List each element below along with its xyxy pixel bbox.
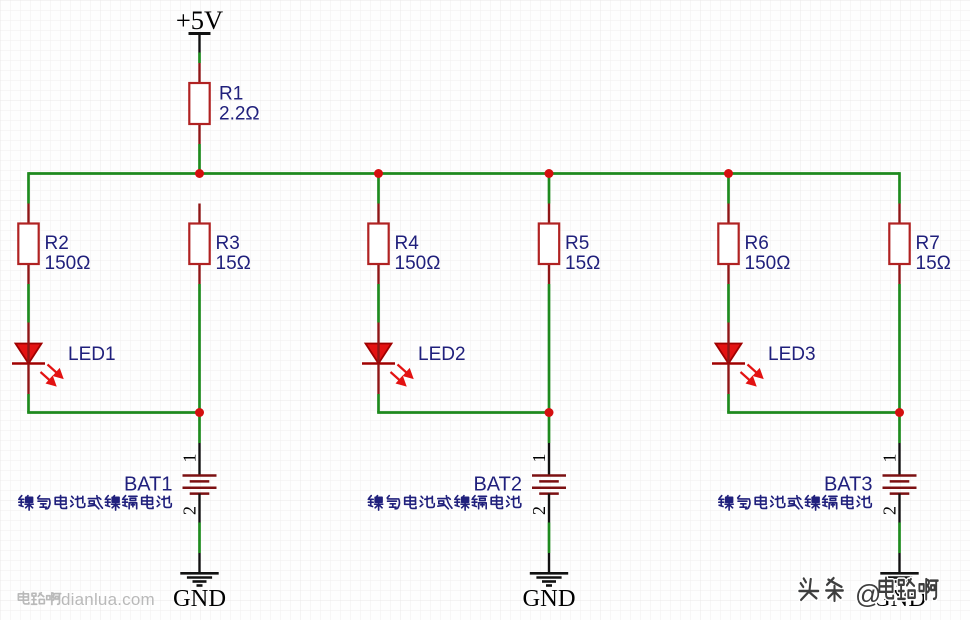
- svg-text:LED2: LED2: [418, 344, 466, 365]
- wire: bus down to resistor at x=728.5: [727, 174, 730, 204]
- battery BAT3: [719, 443, 917, 523]
- wire: bottom bus segment branch 2: [377, 411, 549, 414]
- resistor R5 15Ω: [539, 204, 601, 285]
- wire: BAT2 pin 2 to GND: [548, 523, 551, 554]
- svg-text:GND: GND: [173, 585, 226, 612]
- ground GND2: [522, 553, 575, 612]
- wire: LED3 to bottom bus: [727, 394, 730, 413]
- wire: R7 down to bottom bus: [898, 284, 901, 413]
- wire: BAT3 pin 2 to GND: [898, 523, 901, 554]
- svg-text:BAT2: BAT2: [473, 474, 522, 496]
- resistor R4 150Ω: [368, 204, 440, 285]
- svg-text:R4: R4: [395, 233, 420, 254]
- ground GND3: [873, 553, 926, 612]
- svg-text:BAT3: BAT3: [824, 474, 873, 496]
- junction on top bus at x=549.0: [545, 169, 554, 178]
- svg-text:1: 1: [880, 454, 900, 463]
- wire: R6 to LED3: [727, 284, 730, 323]
- wire: R4 to LED2: [377, 284, 380, 323]
- wire: bus right corner down: [898, 172, 901, 203]
- battery BAT2: [368, 443, 566, 523]
- power port +5V: [176, 5, 223, 53]
- battery BAT1: [19, 443, 217, 523]
- wire: R3 down to bottom bus: [198, 284, 201, 413]
- svg-text:2: 2: [880, 506, 900, 515]
- svg-text:150Ω: 150Ω: [395, 253, 441, 274]
- wire: bottom bus segment branch 1: [27, 411, 199, 414]
- watermark bottom-right 头条@电路啊: [799, 578, 937, 609]
- LED LED2: [362, 323, 466, 395]
- svg-text:1: 1: [529, 454, 549, 463]
- label BAT3 comment 镍氢电池或镍镉电池: [719, 495, 872, 510]
- wire: R5 down to bottom bus: [548, 284, 551, 413]
- wire: bottom bus to BAT2 pin 1: [548, 413, 551, 444]
- svg-text:R5: R5: [565, 233, 589, 254]
- wire: bottom bus segment branch 3: [727, 411, 899, 414]
- svg-text:LED1: LED1: [68, 344, 116, 365]
- svg-text:15Ω: 15Ω: [916, 253, 951, 274]
- junction on bottom bus at x=199.5: [195, 408, 204, 417]
- junction on top bus at x=728.5: [724, 169, 733, 178]
- junction on bottom bus at x=899.5: [895, 408, 904, 417]
- svg-text:1: 1: [180, 454, 200, 463]
- wire: +5V to R1: [198, 53, 201, 64]
- resistor R6 150Ω: [718, 204, 790, 285]
- wire: bus down to resistor at x=378.5: [377, 174, 380, 204]
- LED LED3: [712, 323, 816, 395]
- ground GND1: [173, 553, 226, 612]
- wire: bus left corner down: [27, 172, 30, 203]
- wire: BAT1 pin 2 to GND: [198, 523, 201, 554]
- wire: LED2 to bottom bus: [377, 394, 380, 413]
- svg-text:R6: R6: [745, 233, 769, 254]
- label BAT1 comment 镍氢电池或镍镉电池: [19, 495, 172, 510]
- wire: bottom bus to BAT3 pin 1: [898, 413, 901, 444]
- wire: top horizontal bus: [29, 172, 900, 175]
- resistor R7 15Ω: [889, 204, 951, 285]
- resistor R3 15Ω: [189, 204, 251, 285]
- resistor R1 2.2Ω: [189, 63, 259, 144]
- svg-text:150Ω: 150Ω: [45, 253, 91, 274]
- resistor R2 150Ω: [18, 204, 90, 285]
- svg-text:+5V: +5V: [176, 5, 223, 35]
- junction on bottom bus at x=549.0: [545, 408, 554, 417]
- svg-text:2: 2: [529, 506, 549, 515]
- junction on top bus at x=378.5: [374, 169, 383, 178]
- svg-text:@: @: [855, 579, 881, 609]
- LED LED1: [12, 323, 116, 395]
- label BAT2 comment 镍氢电池或镍镉电池: [368, 495, 521, 510]
- svg-text:GND: GND: [522, 585, 575, 612]
- svg-text:BAT1: BAT1: [124, 474, 173, 496]
- svg-text:R3: R3: [216, 233, 240, 254]
- svg-text:2: 2: [180, 506, 200, 515]
- svg-text:2.2Ω: 2.2Ω: [219, 104, 260, 125]
- wire: LED1 to bottom bus: [27, 394, 30, 413]
- wire: bus down to resistor at x=549.0: [548, 174, 551, 204]
- wire: R2 to LED1: [27, 284, 30, 323]
- svg-text:dianlua.com: dianlua.com: [61, 590, 155, 609]
- svg-text:15Ω: 15Ω: [565, 253, 600, 274]
- wire: R1 to bus: [198, 144, 201, 174]
- junction on top bus at x=199.5: [195, 169, 204, 178]
- svg-text:R1: R1: [219, 84, 243, 105]
- watermark bottom-left 电路啊dianlua.com: [18, 590, 154, 609]
- svg-text:LED3: LED3: [768, 344, 816, 365]
- wire: bottom bus to BAT1 pin 1: [198, 413, 201, 444]
- svg-text:15Ω: 15Ω: [216, 253, 251, 274]
- svg-text:R7: R7: [916, 233, 940, 254]
- svg-text:150Ω: 150Ω: [745, 253, 791, 274]
- svg-text:R2: R2: [45, 233, 69, 254]
